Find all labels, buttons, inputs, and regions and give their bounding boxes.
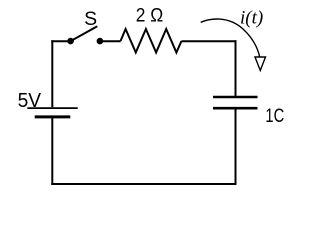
switch S throw contact dot [97, 38, 104, 45]
wire: bottom horizontal [51, 183, 236, 185]
wire: resistor right lead to top-right corner [182, 40, 237, 42]
wire: left vertical from top corner to battery top plate [51, 40, 53, 107]
switch S blade (open) [71, 26, 98, 41]
capacitor C1 top plate [213, 96, 258, 99]
wire: top-left horizontal from corner to switch pole [51, 40, 68, 42]
switch S pole contact dot [67, 38, 74, 45]
battery V1 positive plate (long) [27, 107, 77, 109]
wire: switch throw to resistor left lead [100, 40, 121, 42]
capacitor C1 bottom plate [213, 107, 258, 110]
battery V1 negative plate (short) [35, 115, 71, 118]
resistor R 2ohm zigzag [121, 29, 182, 53]
svg-text:i(t): i(t) [240, 8, 263, 29]
svg-text:1C: 1C [265, 105, 284, 127]
wire: right vertical from top corner to capacitor top plate [235, 40, 237, 96]
svg-text:5V: 5V [18, 90, 42, 112]
svg-text:2 Ω: 2 Ω [136, 5, 164, 27]
wire: capacitor bottom plate to bottom-right corner [235, 108, 237, 185]
current direction arc i(t) [201, 19, 260, 56]
current arrowhead (open) [255, 57, 266, 71]
svg-text:S: S [84, 8, 97, 30]
wire: battery bottom plate to bottom-left corner [51, 117, 53, 185]
